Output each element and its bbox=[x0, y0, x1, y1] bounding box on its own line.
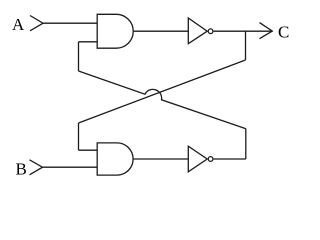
wire U4 output bbox=[214, 158, 246, 160]
svg-text:B: B bbox=[16, 160, 27, 179]
wire U2 to C bbox=[214, 30, 273, 32]
input port B chevron bbox=[30, 160, 43, 175]
AND gate U3 bbox=[97, 143, 133, 175]
inverter U2 triangle bbox=[188, 18, 207, 44]
wire tap vertical from C line bbox=[245, 31, 247, 60]
wire diagonal U4-output feedback up-left with hop over bbox=[79, 71, 246, 129]
svg-text:A: A bbox=[12, 15, 25, 34]
wire diagonal U2-output feedback down-left bbox=[79, 60, 246, 123]
wire U1 output to U2 bbox=[133, 30, 188, 32]
wire left lower vertical bbox=[78, 123, 80, 150]
wire into U3 upper input bbox=[79, 149, 98, 151]
wire feedback to U1 lower input bbox=[79, 41, 98, 43]
inverter U4 triangle bbox=[188, 146, 207, 172]
inverter U2 bubble bbox=[208, 29, 213, 34]
svg-text:C: C bbox=[278, 23, 289, 42]
wire right lower vertical bbox=[245, 129, 247, 159]
wire left upper vertical bbox=[78, 42, 80, 71]
input port A chevron bbox=[30, 16, 43, 31]
output port C arrowhead bbox=[260, 23, 273, 39]
AND gate U1 bbox=[97, 14, 133, 48]
wire B to U3 bbox=[43, 166, 98, 168]
wire A to U1 bbox=[43, 22, 97, 24]
inverter U4 bubble bbox=[208, 157, 213, 162]
wire U3 output to U4 bbox=[133, 158, 188, 160]
